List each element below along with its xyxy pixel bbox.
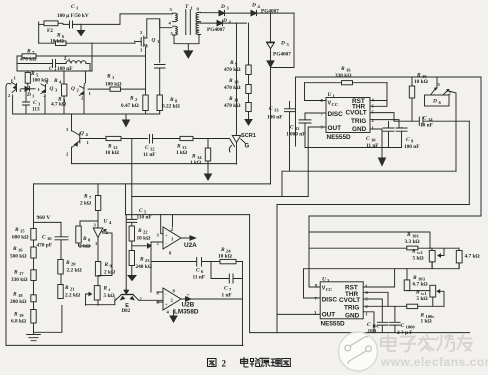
svg-text:G: G xyxy=(245,144,250,150)
resistor R20 xyxy=(58,260,82,275)
resistor R12 xyxy=(89,136,148,156)
resistor R19 xyxy=(11,302,36,335)
svg-text:23: 23 xyxy=(145,258,150,263)
resistor R10 xyxy=(409,73,428,122)
svg-text:1 kΩ: 1 kΩ xyxy=(190,160,201,166)
svg-text:CC: CC xyxy=(332,102,339,107)
ground (470k chain) xyxy=(245,120,252,126)
svg-text:10 kΩ: 10 kΩ xyxy=(105,150,119,156)
svg-text:R: R xyxy=(13,312,18,318)
resistor R24a 2k top xyxy=(80,184,101,228)
potentiometer Rw1 5k xyxy=(407,285,444,306)
svg-text:GND: GND xyxy=(345,313,360,320)
svg-text:100 μ F/50 kV: 100 μ F/50 kV xyxy=(57,13,89,19)
op-amp U2A xyxy=(157,227,198,256)
svg-text:R: R xyxy=(228,96,233,102)
svg-text:6.8 kΩ: 6.8 kΩ xyxy=(11,319,26,325)
transformer T1 xyxy=(169,4,201,44)
transistor Q2 xyxy=(71,71,92,114)
resistor R8 xyxy=(157,95,180,114)
svg-text:w2: w2 xyxy=(417,250,423,255)
svg-text:680 kΩ: 680 kΩ xyxy=(12,235,28,241)
thyristor SCR1 xyxy=(229,23,256,164)
capacitor C1 xyxy=(57,4,89,28)
svg-text:16: 16 xyxy=(18,248,23,253)
svg-text:SCR1: SCR1 xyxy=(241,133,256,139)
svg-text:CC: CC xyxy=(326,287,333,292)
transistor Q (MOSFET) xyxy=(134,19,173,53)
transistor Q3 xyxy=(38,79,59,98)
svg-text:10 kΩ: 10 kΩ xyxy=(137,236,151,242)
resistor R6 xyxy=(39,22,92,46)
wire U3 gnd xyxy=(363,312,374,333)
svg-text:R: R xyxy=(103,286,108,292)
wire C14 riser xyxy=(468,121,470,204)
svg-text:R: R xyxy=(12,246,17,252)
potentiometer Rw2 5k xyxy=(411,248,444,268)
capacitor C1000 xyxy=(390,306,416,336)
svg-text:OUT: OUT xyxy=(328,125,342,132)
svg-text:C: C xyxy=(406,137,410,143)
caption glyph lu xyxy=(250,358,260,366)
resistor R10b xyxy=(224,75,251,94)
capacitor (drain snubber) xyxy=(155,65,166,96)
capacitor C5 xyxy=(127,139,152,226)
svg-text:R: R xyxy=(220,247,225,253)
svg-text:R: R xyxy=(83,194,88,200)
capacitor C7 xyxy=(211,262,243,299)
svg-text:470 kΩ: 470 kΩ xyxy=(224,67,240,73)
svg-text:R: R xyxy=(65,260,70,266)
diode D3 xyxy=(219,4,251,16)
svg-text:D: D xyxy=(280,41,285,47)
svg-text:R: R xyxy=(14,227,19,233)
diode D6 xyxy=(425,78,457,171)
svg-text:U2A: U2A xyxy=(184,242,197,249)
svg-text:1 kΩ: 1 kΩ xyxy=(176,150,187,156)
wire TRIG pin2 xyxy=(370,120,399,128)
wire drain cap branch xyxy=(159,19,161,63)
diode D4 xyxy=(251,3,294,16)
svg-text:240 kΩ: 240 kΩ xyxy=(136,264,152,270)
resistor R24 xyxy=(211,247,243,264)
svg-text:100 nF: 100 nF xyxy=(404,144,419,150)
svg-text:C: C xyxy=(139,208,143,214)
wire CVOLT pin5 xyxy=(370,113,394,122)
svg-text:16: 16 xyxy=(47,236,52,241)
svg-text:10 kΩ: 10 kΩ xyxy=(414,79,428,85)
regulator U4 xyxy=(93,219,112,262)
svg-text:4.7 kΩ: 4.7 kΩ xyxy=(51,102,66,108)
svg-text:R: R xyxy=(107,144,112,150)
svg-text:C: C xyxy=(33,100,37,106)
svg-text:R: R xyxy=(64,285,69,291)
wire U3 thr xyxy=(363,292,388,306)
svg-text:GND: GND xyxy=(352,126,367,133)
wire D02 to U2B xyxy=(139,299,163,301)
watermark glyph dian xyxy=(381,335,396,352)
ladder box edges xyxy=(17,56,92,71)
svg-text:10B: 10B xyxy=(368,329,377,335)
wire GND pin1 xyxy=(370,129,382,158)
diode D5 xyxy=(267,13,292,61)
svg-text:11 nF: 11 nF xyxy=(193,275,206,281)
svg-text:560 kΩ: 560 kΩ xyxy=(10,254,26,260)
inductor L1 xyxy=(63,56,90,64)
resistor R9b 2k mid xyxy=(95,262,115,277)
svg-text:1000: 1000 xyxy=(406,325,416,330)
svg-text:C: C xyxy=(71,4,75,10)
svg-text:10 nF: 10 nF xyxy=(420,123,433,129)
svg-text:470 pF: 470 pF xyxy=(37,243,52,249)
resistor R14 xyxy=(190,139,211,174)
watermark glyph fa xyxy=(418,334,436,351)
wire rail right riser xyxy=(309,77,481,216)
svg-text:C: C xyxy=(42,235,46,241)
svg-text:NE555D: NE555D xyxy=(321,321,346,328)
svg-text:Q: Q xyxy=(152,38,156,44)
svg-text:CVOLT: CVOLT xyxy=(346,110,367,117)
resistor R7 xyxy=(17,49,146,63)
svg-text:2 kΩ: 2 kΩ xyxy=(79,244,90,250)
arrow (U1 gnd) xyxy=(379,158,386,166)
svg-text:+: + xyxy=(165,233,168,238)
node bus y114 xyxy=(13,113,160,115)
svg-text:20: 20 xyxy=(71,262,76,267)
wire U3 cvolt xyxy=(363,299,382,306)
svg-text:960 V: 960 V xyxy=(37,215,51,221)
svg-text:101: 101 xyxy=(412,234,420,239)
fuse F2 xyxy=(39,21,63,34)
svg-text:2 kΩ: 2 kΩ xyxy=(80,201,91,207)
svg-text:R: R xyxy=(411,249,416,255)
wire cluster internal xyxy=(44,96,46,115)
watermark glyph zi xyxy=(400,337,417,352)
wire pot to lead1 xyxy=(86,304,115,306)
ground (transformer) xyxy=(184,44,193,58)
resistor R103 6.7k xyxy=(404,269,427,291)
transistor D02 xyxy=(114,289,143,314)
wire U4 pin2 to divider xyxy=(98,233,112,276)
resistor R17 xyxy=(11,258,36,283)
svg-text:D: D xyxy=(26,92,31,98)
svg-text:C: C xyxy=(145,145,149,151)
wire cluster left edge xyxy=(12,95,14,114)
svg-text:R: R xyxy=(406,232,411,238)
wire D4 output riser xyxy=(293,13,295,67)
svg-text:C: C xyxy=(401,323,405,329)
resistor R21 xyxy=(58,274,80,299)
capacitor C4 xyxy=(17,60,72,73)
caption glyph tu1 xyxy=(208,359,217,367)
caption glyph tu2 xyxy=(282,359,291,367)
resistor R104 1k xyxy=(407,304,444,324)
svg-text:R: R xyxy=(13,270,18,276)
watermark glyph you xyxy=(457,335,472,352)
resistor R3 xyxy=(51,71,67,114)
wire U3 rst xyxy=(363,269,394,287)
svg-text:330 kΩ: 330 kΩ xyxy=(335,73,351,79)
svg-text:113: 113 xyxy=(32,107,40,113)
svg-text:Q: Q xyxy=(80,131,84,137)
watermark glyph shao xyxy=(437,334,455,351)
svg-text:15: 15 xyxy=(20,229,25,234)
wire D5 node down to bus xyxy=(270,68,272,185)
watermark logo circle xyxy=(339,332,378,371)
svg-text:19: 19 xyxy=(19,313,24,318)
diode D1 xyxy=(21,87,35,99)
svg-text:R: R xyxy=(340,66,345,72)
resistor R22 xyxy=(129,226,150,242)
svg-text:C: C xyxy=(196,268,200,274)
resistor R11 xyxy=(224,94,251,120)
svg-text:LM358D: LM358D xyxy=(174,309,199,316)
svg-text:2 ? μ F: 2 ? μ F xyxy=(397,330,413,336)
svg-text:C: C xyxy=(269,106,273,112)
resistor R18 xyxy=(10,281,36,306)
wire gate feed xyxy=(226,139,235,147)
svg-text:0.47 kΩ: 0.47 kΩ xyxy=(121,103,139,109)
wire pin8 row xyxy=(201,22,217,24)
svg-text:100 nF: 100 nF xyxy=(267,115,282,121)
resistor R5 xyxy=(25,71,48,87)
resistor R16 xyxy=(305,66,388,101)
svg-text:R: R xyxy=(106,74,111,80)
svg-text:5 kΩ: 5 kΩ xyxy=(417,296,428,302)
svg-text:10 kΩ: 10 kΩ xyxy=(218,254,232,260)
svg-text:5 kΩ: 5 kΩ xyxy=(413,256,424,262)
svg-text:22: 22 xyxy=(143,230,148,235)
svg-text:4.7 kΩ: 4.7 kΩ xyxy=(465,254,480,260)
resistor R13 xyxy=(176,136,226,156)
svg-text:470 kΩ: 470 kΩ xyxy=(224,103,240,109)
wire DISC pin7 xyxy=(305,112,326,114)
svg-text:2 kΩ: 2 kΩ xyxy=(104,270,115,276)
capacitor C3 xyxy=(23,91,42,114)
svg-text:6.7 kΩ: 6.7 kΩ xyxy=(413,282,428,288)
resistor R2 xyxy=(121,95,148,114)
svg-text:11: 11 xyxy=(295,126,300,131)
svg-text:PG4007: PG4007 xyxy=(207,27,225,33)
svg-text:+: + xyxy=(165,302,168,307)
wire RST THR loop xyxy=(370,83,387,107)
wire left frame xyxy=(6,83,243,345)
watermark text xyxy=(380,334,488,369)
svg-text:R: R xyxy=(129,96,134,102)
wire OUT bus xyxy=(132,196,308,198)
svg-text:U2B: U2B xyxy=(182,302,195,309)
svg-text:NE555D: NE555D xyxy=(327,134,352,141)
resistor R8b 2k left xyxy=(76,221,98,250)
transistor Q4 xyxy=(66,114,90,164)
op U1 NE555D box xyxy=(321,92,375,141)
svg-text:E: E xyxy=(125,303,129,309)
svg-text:R: R xyxy=(416,73,421,79)
svg-text:R: R xyxy=(229,60,234,66)
wire C1 to transformer xyxy=(81,14,173,25)
wire OUT pin3 xyxy=(308,127,326,197)
wire bus B xyxy=(34,183,271,185)
svg-text:R: R xyxy=(191,154,196,160)
svg-text:R: R xyxy=(169,97,174,103)
svg-text:2: 2 xyxy=(222,358,227,368)
svg-text:R: R xyxy=(53,78,58,84)
ground (C1 node) xyxy=(78,24,85,35)
wire lowerleft frame right edge xyxy=(250,215,470,333)
svg-text:CVOLT: CVOLT xyxy=(339,297,360,304)
caption glyph li xyxy=(271,359,281,367)
svg-text:0.22 kΩ: 0.22 kΩ xyxy=(162,104,180,110)
wire pin9 xyxy=(201,12,219,14)
wire feedback riser xyxy=(242,262,244,346)
svg-text:16: 16 xyxy=(346,68,351,73)
svg-text:www.elecfans.com: www.elecfans.com xyxy=(380,355,488,369)
svg-text:1 kΩ: 1 kΩ xyxy=(421,319,432,325)
svg-text:TRIG: TRIG xyxy=(344,305,359,312)
op-amp U2B xyxy=(157,288,243,322)
svg-text:OUT: OUT xyxy=(322,312,336,319)
svg-text:17: 17 xyxy=(19,271,24,276)
resistor R101 3.3k xyxy=(309,232,459,250)
resistor R102 4.7k xyxy=(456,248,479,268)
resistor R15 xyxy=(12,227,36,241)
svg-text:D: D xyxy=(251,3,256,9)
svg-text:Q: Q xyxy=(50,86,54,92)
wire D5 bottom node xyxy=(271,67,295,69)
capacitor C16 xyxy=(37,222,69,259)
capacitor C100 xyxy=(367,306,388,334)
svg-text:110 nF: 110 nF xyxy=(137,215,152,221)
svg-text:C: C xyxy=(224,286,228,292)
capacitor C9 xyxy=(396,128,419,150)
svg-text:13: 13 xyxy=(274,108,279,113)
arrow (D5 bottom) xyxy=(267,61,274,67)
svg-text:200 kΩ: 200 kΩ xyxy=(10,299,26,305)
svg-text:DISC: DISC xyxy=(322,297,338,304)
capacitor C11 xyxy=(286,113,311,148)
svg-text:10: 10 xyxy=(371,138,376,143)
svg-text:2.2 kΩ: 2.2 kΩ xyxy=(65,293,80,299)
resistor R9 xyxy=(224,23,251,74)
wire U1 bottom xyxy=(305,147,402,149)
wire top rail xyxy=(296,77,482,146)
wire source xyxy=(145,47,147,94)
svg-text:R: R xyxy=(82,236,87,242)
capacitor C10 xyxy=(366,122,394,150)
wire D6 return xyxy=(282,171,456,196)
svg-text:R: R xyxy=(176,144,181,150)
svg-text:TRIG: TRIG xyxy=(351,118,366,125)
svg-text:2.2 kΩ: 2.2 kΩ xyxy=(67,268,82,274)
svg-text:11 nF: 11 nF xyxy=(366,143,379,149)
caption glyph dian xyxy=(241,358,249,367)
capacitor C12 xyxy=(143,135,180,159)
resistor R1 xyxy=(88,74,146,92)
svg-text:21: 21 xyxy=(70,287,75,292)
wire U3 trig xyxy=(363,305,407,307)
svg-text:C: C xyxy=(290,125,294,131)
wire U3 vcc rail xyxy=(309,216,430,287)
wire Vcc pin8 xyxy=(305,100,327,102)
svg-text:18: 18 xyxy=(18,293,23,298)
svg-text:1 000 nF: 1 000 nF xyxy=(286,132,305,138)
ground (R14) xyxy=(205,174,212,180)
wire chain gnd link xyxy=(34,306,62,333)
svg-text:12: 12 xyxy=(150,147,155,152)
diode D4b xyxy=(207,18,247,33)
node 960V xyxy=(34,184,62,229)
resistor R16b xyxy=(10,240,36,260)
svg-text:Q: Q xyxy=(71,86,75,92)
ground (chain) xyxy=(27,335,41,341)
svg-text:3.3 kΩ: 3.3 kΩ xyxy=(405,239,420,245)
svg-text:330 kΩ: 330 kΩ xyxy=(11,277,27,283)
capacitor C13 xyxy=(267,102,295,172)
svg-text:11 nF: 11 nF xyxy=(143,152,156,158)
svg-text:C: C xyxy=(367,322,371,328)
svg-text:R: R xyxy=(104,262,109,268)
svg-text:F2: F2 xyxy=(47,28,53,34)
svg-text:D: D xyxy=(432,99,437,105)
wire U2A inputs xyxy=(132,215,163,292)
op U3 NE555D box xyxy=(314,277,369,328)
caption glyph yuan xyxy=(261,358,270,366)
wire bottomright frame xyxy=(277,205,469,333)
svg-text:R: R xyxy=(228,78,233,84)
wire row1 bottom (part of DISC net) xyxy=(432,262,459,269)
wire U3 disc xyxy=(304,269,460,298)
svg-text:D02: D02 xyxy=(122,309,131,314)
transistor Q1 xyxy=(8,76,22,99)
svg-text:PG4007: PG4007 xyxy=(273,52,291,58)
svg-text:R: R xyxy=(139,257,144,263)
caption: tu 2 dian lu yuan li tu xyxy=(208,358,291,369)
wire U3 out xyxy=(277,313,320,315)
svg-text:DISC: DISC xyxy=(328,111,344,118)
svg-text:470 kΩ: 470 kΩ xyxy=(224,85,240,91)
svg-text:1 nF: 1 nF xyxy=(222,293,232,299)
resistor R23 xyxy=(129,241,152,276)
capacitor C14 xyxy=(394,116,469,129)
svg-text:R: R xyxy=(12,292,17,298)
wire bus A xyxy=(72,163,237,165)
wire U2A rail xyxy=(126,215,250,227)
svg-text:C: C xyxy=(366,136,370,142)
capacitor C6 xyxy=(151,258,211,281)
svg-text:R: R xyxy=(137,228,142,234)
wire gate node xyxy=(92,43,135,71)
svg-text:C: C xyxy=(423,116,427,122)
arrow (R23 ground) xyxy=(128,276,136,281)
potentiometer Rt 5k xyxy=(86,276,115,305)
svg-text:R: R xyxy=(412,275,417,281)
ground (bus 114) xyxy=(123,114,130,127)
svg-text:D: D xyxy=(220,4,225,10)
wire busB to rail riser and D02 collector xyxy=(125,184,128,289)
